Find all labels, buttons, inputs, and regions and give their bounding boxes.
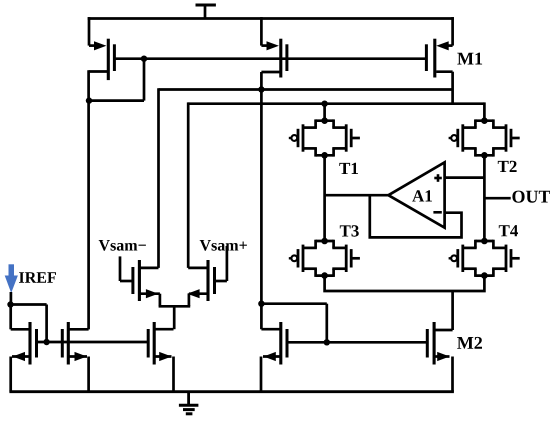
wire right diff drain riser [187,102,190,268]
transistor D2 (diff pair right NMOS) [187,246,227,306]
label IREF [19,272,56,283]
wire T3-T4 bottom link [325,275,485,291]
transistor P2 (middle PMOS) [261,17,287,77]
wire left bias gate line [37,341,149,344]
transistor D1 (diff pair left NMOS) [120,256,160,306]
transmission gate T1 [289,117,360,158]
transmission gate T3 [289,238,360,279]
wire IREF lead [10,292,13,305]
wire T1-T3 vertical [323,155,326,241]
op-amp A1 [388,162,444,227]
wire op-amp input from T1/T3 node [325,194,389,197]
node right gate line junction [324,339,330,345]
wire P2 drain down to bias node [260,72,263,329]
transmission gate T2 [449,117,520,158]
wire P1 gate-drain diode connection [89,59,144,101]
label Vsam- [99,240,146,251]
label M2 [457,337,482,349]
transistor N3 (diff pair tail NMOS) [148,322,173,392]
node P1 gate junction [141,56,147,62]
wire T2-T4 vertical [483,155,486,241]
label Vsam+ [200,240,247,251]
wire minus input feedback loop [370,195,462,237]
wire bias tap to right gate line [261,304,326,343]
transistor M1 (top-right PMOS) [426,17,452,105]
wire OUT [484,197,510,200]
node T1 top bus junction [321,101,327,107]
wire inner bus to T2 [188,102,484,121]
ground symbol [179,392,199,414]
transistor N2 (cascode NMOS under P1) [62,322,88,392]
transistor N4 (output cascode NMOS) [261,322,287,392]
transistor N1 (diode NMOS, bottom-left) [11,305,37,392]
wire P1 drain down to bottom mirror [87,70,90,329]
transmission gate T4 [449,238,520,279]
label M1 [457,53,482,65]
wire left diff drain riser [157,88,160,268]
transistor P1 (diode-connected PMOS, top-left) [89,17,115,80]
label T4 [499,225,518,236]
label T3 [340,225,359,237]
wire top supply rail [88,17,454,20]
node IREF input [7,301,13,307]
wire T1 top stub [323,104,326,122]
wire link down to M2 drain [451,291,454,330]
label T1 [339,163,358,174]
power supply symbol [196,5,216,19]
wire folded-cascode upper bus [159,88,453,91]
node bias tap on P2 drain [258,301,264,307]
node P2 drain on bus [258,86,264,92]
node P1 drain junction [86,97,92,103]
wire diff pair common source [154,306,190,329]
wire bottom ground rail [9,390,454,393]
label T2 [498,161,517,172]
node mirror gate junction [43,339,49,345]
label OUT [512,191,550,203]
wire right bias gate line [287,341,427,344]
wire gate line of top PMOS mirror [114,57,426,60]
blue IREF arrow [5,264,18,293]
wire plus input to T2/T4 node [445,176,485,179]
wire IREF to mirror gates [11,305,47,343]
transistor M2 (output mirror NMOS) [427,322,452,392]
